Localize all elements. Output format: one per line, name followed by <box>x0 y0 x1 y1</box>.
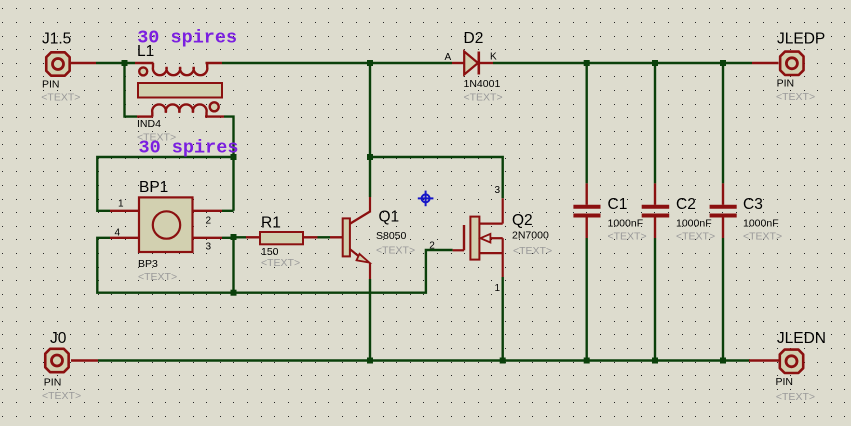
svg-text:C3: C3 <box>743 196 763 213</box>
svg-text:<TEXT>: <TEXT> <box>608 231 647 243</box>
svg-text:3: 3 <box>495 185 501 196</box>
svg-text:3: 3 <box>206 242 212 253</box>
svg-text:C2: C2 <box>676 196 696 213</box>
svg-text:PIN: PIN <box>776 376 794 388</box>
svg-text:1000nF: 1000nF <box>743 218 779 230</box>
svg-text:R1: R1 <box>261 215 281 232</box>
svg-text:<TEXT>: <TEXT> <box>776 91 815 103</box>
svg-text:2: 2 <box>206 216 212 227</box>
svg-text:<TEXT>: <TEXT> <box>41 92 80 104</box>
svg-text:<TEXT>: <TEXT> <box>261 257 300 269</box>
svg-text:<TEXT>: <TEXT> <box>513 245 552 257</box>
svg-text:BP1: BP1 <box>139 179 168 196</box>
svg-text:IND4: IND4 <box>137 118 161 130</box>
svg-text:1N4001: 1N4001 <box>464 78 501 90</box>
svg-text:J1.5: J1.5 <box>42 31 71 48</box>
svg-text:PIN: PIN <box>44 376 62 388</box>
svg-text:S8050: S8050 <box>376 230 407 242</box>
svg-text:C1: C1 <box>608 196 628 213</box>
svg-text:<TEXT>: <TEXT> <box>743 231 782 243</box>
svg-text:4: 4 <box>115 228 121 239</box>
svg-text:D2: D2 <box>464 30 484 47</box>
svg-text:2: 2 <box>429 241 435 252</box>
svg-text:<TEXT>: <TEXT> <box>376 245 415 257</box>
svg-text:JLEDP: JLEDP <box>777 31 825 48</box>
svg-text:Q2: Q2 <box>512 212 533 229</box>
svg-text:<TEXT>: <TEXT> <box>776 391 815 403</box>
svg-text:BP3: BP3 <box>138 258 158 270</box>
svg-text:A: A <box>445 52 452 63</box>
svg-text:<TEXT>: <TEXT> <box>138 271 177 283</box>
svg-text:PIN: PIN <box>42 79 60 91</box>
svg-text:2N7000: 2N7000 <box>512 230 549 242</box>
svg-text:Q1: Q1 <box>379 209 400 226</box>
svg-text:<TEXT>: <TEXT> <box>676 231 715 243</box>
svg-text:L1: L1 <box>137 43 154 60</box>
svg-text:1000nF: 1000nF <box>608 218 644 230</box>
svg-text:1: 1 <box>495 283 501 294</box>
svg-text:<TEXT>: <TEXT> <box>137 132 176 144</box>
svg-text:1: 1 <box>118 199 124 210</box>
svg-text:<TEXT>: <TEXT> <box>464 92 503 104</box>
svg-text:K: K <box>490 52 497 63</box>
svg-text:JLEDN: JLEDN <box>777 330 826 347</box>
svg-text:1000nF: 1000nF <box>676 218 712 230</box>
svg-text:PIN: PIN <box>777 78 795 90</box>
svg-text:<TEXT>: <TEXT> <box>42 390 81 402</box>
svg-text:J0: J0 <box>50 330 67 347</box>
